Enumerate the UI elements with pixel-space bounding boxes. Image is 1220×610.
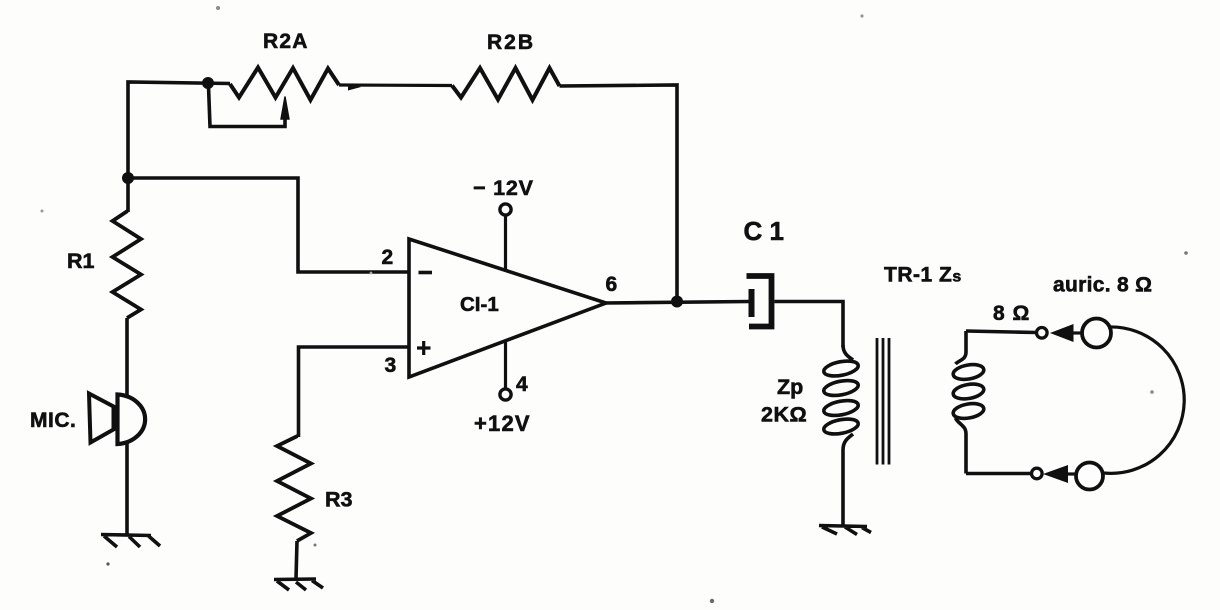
wire R1 to microphone bbox=[125, 318, 129, 397]
wire arrow to top earpiece bbox=[1072, 331, 1083, 334]
ground under transformer bbox=[819, 526, 871, 535]
wire R2B right and down to output node bbox=[560, 85, 678, 301]
svg-text:3: 3 bbox=[385, 354, 397, 377]
R2A wiper wire bbox=[209, 86, 286, 127]
op-amp non-inverting plus symbol bbox=[417, 341, 431, 355]
op-amp inverting minus symbol bbox=[419, 271, 433, 275]
svg-text:2KΩ: 2KΩ bbox=[761, 403, 807, 427]
wire C1 to transformer primary bbox=[775, 302, 844, 348]
wire op-amp output to C1 bbox=[604, 302, 749, 304]
svg-text:R3: R3 bbox=[325, 488, 353, 512]
transformer secondary coil exit curve bbox=[956, 418, 967, 474]
svg-text:− 12V: − 12V bbox=[473, 176, 534, 200]
wire arrow to bottom earpiece bbox=[1066, 472, 1077, 475]
ground under microphone bbox=[101, 535, 160, 548]
node junction dot at R2A left bbox=[202, 77, 214, 89]
svg-text:6: 6 bbox=[606, 273, 618, 296]
headphone headband arc bbox=[1104, 327, 1184, 473]
resistor R2B zigzag bbox=[452, 68, 560, 100]
wire top-left from R1 node up and right to R2A bbox=[128, 82, 230, 178]
svg-text:4: 4 bbox=[516, 373, 528, 396]
svg-text:Zp: Zp bbox=[777, 375, 803, 399]
power terminal -12V circle bbox=[500, 204, 511, 215]
capacitor C1 left plate bbox=[749, 289, 755, 317]
headphone bottom earpiece bbox=[1076, 463, 1103, 490]
headphone top arrow bbox=[1050, 324, 1074, 342]
microphone MIC horn bbox=[89, 394, 114, 443]
headphone bottom terminal circle bbox=[1032, 468, 1043, 479]
transformer primary coil exit curve bbox=[843, 434, 853, 525]
resistor R3 zigzag bbox=[277, 436, 311, 541]
wire node to op-amp pin 2 bbox=[128, 178, 409, 272]
power terminal +12V circle bbox=[500, 389, 511, 400]
svg-text:CI-1: CI-1 bbox=[460, 293, 499, 316]
svg-text:MIC.: MIC. bbox=[30, 409, 76, 432]
svg-text:R1: R1 bbox=[67, 249, 95, 273]
R2A wiper arrow bbox=[281, 97, 289, 120]
wire R2A to R2B bbox=[339, 83, 452, 87]
transformer primary coil Zp loops bbox=[823, 358, 860, 436]
headphone top earpiece bbox=[1082, 319, 1111, 348]
wire R3 to ground bbox=[296, 541, 297, 579]
wire node down to R1 bbox=[126, 178, 130, 212]
wire secondary bottom to headphone bbox=[966, 472, 1032, 476]
svg-text:R2A: R2A bbox=[263, 30, 309, 53]
svg-text:R2B: R2B bbox=[487, 31, 535, 54]
ground under R3 bbox=[274, 579, 323, 590]
wire microphone to ground bbox=[125, 443, 129, 534]
wire -12V to op-amp bbox=[504, 215, 507, 272]
wire op-amp pin 3 to R3 bbox=[299, 347, 410, 437]
svg-text:C 1: C 1 bbox=[744, 216, 784, 246]
svg-text:8 Ω: 8 Ω bbox=[993, 302, 1030, 325]
svg-text:auric. 8 Ω: auric. 8 Ω bbox=[1053, 274, 1152, 297]
arrow mark on wire bbox=[348, 84, 361, 91]
transformer core lines bbox=[877, 338, 889, 465]
wire secondary top to headphone bbox=[966, 331, 1036, 333]
capacitor C1 right bracket plate bbox=[747, 276, 772, 327]
transformer primary coil entry curve bbox=[843, 345, 853, 360]
node junction dot left bbox=[122, 172, 134, 184]
transformer secondary coil entry curve bbox=[956, 331, 967, 364]
svg-text:TR-1 Zs: TR-1 Zs bbox=[884, 264, 962, 287]
op-amp CI-1 triangle bbox=[409, 239, 606, 377]
microphone MIC capsule bbox=[118, 395, 146, 445]
resistor R1 zigzag bbox=[113, 211, 142, 318]
potentiometer R2A zigzag bbox=[230, 68, 339, 101]
headphone top terminal circle bbox=[1037, 328, 1048, 339]
transformer secondary coil Zs loops bbox=[952, 362, 985, 420]
wire op-amp to +12V bbox=[504, 341, 507, 390]
svg-text:2: 2 bbox=[382, 246, 394, 269]
headphone bottom arrow bbox=[1043, 465, 1068, 483]
node output junction dot bbox=[671, 296, 683, 308]
svg-text:+12V: +12V bbox=[474, 411, 531, 436]
